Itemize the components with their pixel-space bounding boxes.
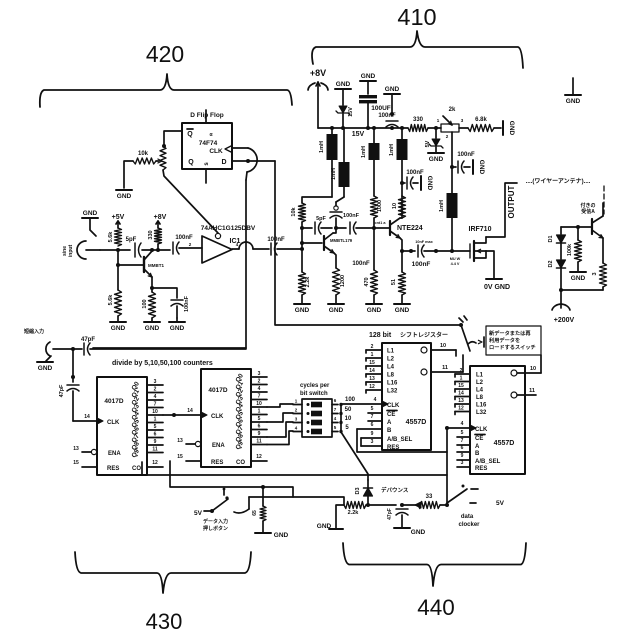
svg-text:11: 11 [442, 365, 448, 371]
svg-text:5V: 5V [425, 140, 431, 147]
label data clocker [458, 514, 480, 528]
pin RES U6 [457, 460, 487, 472]
wire Q8 counter2 to dip row3 [267, 422, 293, 437]
wire arrow on data line [402, 502, 421, 508]
svg-text:A/B_SEL: A/B_SEL [475, 459, 501, 465]
svg-text:5pF: 5pF [126, 237, 137, 243]
+8V supply at Q1 [154, 214, 167, 228]
top pin of flip flop [205, 110, 207, 123]
node driver to output stage [372, 221, 386, 230]
brace for section 420 [40, 74, 292, 107]
svg-text:GND: GND [566, 98, 581, 105]
push button data input [194, 488, 249, 517]
svg-text:受信A: 受信A [581, 208, 595, 215]
svg-text:GND: GND [317, 523, 332, 530]
brace for section 410 [312, 31, 523, 68]
resistor 470 below driver node [364, 228, 378, 295]
wire Q4 counter2 to dip row1 [267, 404, 293, 407]
svg-text:GND: GND [411, 529, 426, 536]
label OUTPUT [507, 185, 516, 218]
pin ABSEL U5 [361, 431, 413, 443]
pin CE U6 [457, 430, 485, 442]
counter U4 4017D box [201, 369, 251, 467]
svg-text:5: 5 [334, 425, 337, 430]
svg-text:7: 7 [371, 414, 374, 420]
svg-text:L32: L32 [387, 389, 398, 395]
capacitor 5pF input coupling [126, 237, 141, 257]
svg-text:GND: GND [385, 86, 400, 93]
svg-text:CLK: CLK [209, 148, 223, 155]
supply rail 15V [318, 126, 408, 138]
resistor 2.2k data line [344, 502, 366, 517]
capacitor 5pF feedback [302, 216, 332, 234]
capacitor 47pF data line [387, 508, 408, 527]
pin RES U5 [361, 439, 399, 451]
transistor Q2 MMBTL179 [324, 233, 353, 253]
pin CLK U6 [445, 421, 488, 433]
potentiometer 2k [437, 107, 464, 139]
receiver label japanese [580, 202, 595, 215]
load switch japanese text [488, 329, 536, 351]
svg-text:付きの: 付きの [580, 202, 595, 209]
pins Q0-Q9 counter2 stubs [251, 371, 267, 445]
svg-text:4: 4 [374, 397, 377, 403]
svg-text:15: 15 [177, 454, 183, 460]
svg-text:4: 4 [295, 426, 298, 431]
svg-text:2: 2 [189, 242, 192, 247]
ground at input connector [82, 210, 98, 236]
svg-text:5V: 5V [496, 500, 505, 507]
capacitor 100nF collector feed [330, 202, 360, 228]
wire load box to U6 pin10 [540, 355, 542, 373]
svg-text:RES: RES [211, 460, 223, 466]
svg-text:L2: L2 [476, 380, 484, 386]
label push button japanese [203, 518, 228, 532]
svg-text:9: 9 [371, 431, 374, 437]
diode D2 [548, 243, 566, 290]
svg-text:1mH: 1mH [319, 141, 325, 153]
svg-text:470: 470 [364, 277, 370, 286]
svg-text:4: 4 [154, 394, 157, 400]
pin 5 of flip flop [204, 162, 210, 166]
svg-text:押しボタン: 押しボタン [203, 525, 228, 532]
svg-text:10: 10 [345, 416, 352, 422]
wire driver node to PA base [374, 227, 390, 229]
svg-text:A: A [475, 444, 480, 450]
svg-text:330: 330 [148, 230, 154, 239]
ground 0V at source [484, 279, 510, 291]
svg-text:1: 1 [437, 118, 440, 123]
svg-text:input: input [68, 245, 74, 258]
wire CLK pin loop [232, 147, 248, 149]
svg-text:GND: GND [145, 325, 160, 332]
svg-text:4017D: 4017D [208, 387, 227, 394]
svg-text:9: 9 [258, 431, 261, 437]
svg-text:GND: GND [38, 365, 53, 372]
svg-text:74F74: 74F74 [199, 140, 218, 147]
svg-text:2k: 2k [449, 107, 456, 113]
ground for trimpot [116, 161, 133, 200]
svg-text:D Flip Flop: D Flip Flop [190, 112, 224, 119]
svg-text:11: 11 [529, 388, 535, 394]
svg-text:RES: RES [387, 445, 399, 451]
resistor 51 emitter [391, 251, 406, 295]
svg-text:GND: GND [571, 275, 586, 282]
svg-text:2: 2 [295, 408, 298, 413]
svg-text:GND: GND [429, 156, 444, 163]
svg-text:1mH: 1mH [361, 146, 367, 158]
svg-text:ENA: ENA [108, 451, 121, 457]
zener diode 15V [336, 106, 354, 128]
svg-text:CLK: CLK [107, 420, 120, 426]
ground for 47pF [394, 528, 426, 536]
svg-text:3: 3 [371, 439, 374, 445]
svg-text:5: 5 [345, 425, 349, 431]
svg-text:4: 4 [461, 421, 464, 427]
svg-text:7: 7 [258, 394, 261, 400]
ground counterpoise top right [565, 78, 581, 105]
label divide by counters [112, 360, 213, 367]
pins Q0-Q9 counter2 labels [234, 372, 245, 451]
pins L1-L32 U5 stubs [366, 344, 382, 393]
resistor 330 rail [408, 117, 428, 132]
mosfet Q4 IRF710 [469, 226, 492, 261]
svg-text:10: 10 [256, 401, 262, 407]
wire bus lower A [142, 462, 447, 475]
dip switch rows [293, 399, 343, 435]
pin CE U5 [368, 406, 397, 418]
svg-text:13: 13 [369, 376, 375, 382]
pin A U5 [368, 414, 392, 426]
wire 330 to pot [428, 126, 441, 130]
svg-text:100k: 100k [567, 243, 573, 256]
capacitor 100nF rail bypass [378, 112, 398, 128]
svg-text:1200: 1200 [340, 275, 346, 287]
svg-text:15: 15 [73, 460, 79, 466]
svg-text:7: 7 [461, 438, 464, 444]
svg-text:330: 330 [413, 117, 424, 123]
wire source to ground [486, 251, 494, 278]
section label 430 [146, 609, 183, 634]
wire receiver collector to antenna [602, 203, 604, 216]
svg-text:短縮入力: 短縮入力 [24, 328, 44, 335]
svg-text:3: 3 [592, 272, 598, 275]
wire output cap to bias node [277, 247, 304, 251]
capacitor 100uF bulk [359, 95, 391, 128]
pins Q0-Q9 counter1 stubs [147, 379, 163, 453]
svg-text:65: 65 [252, 510, 258, 516]
svg-text:RES: RES [475, 466, 487, 472]
svg-text:12: 12 [369, 384, 375, 390]
svg-text:7: 7 [334, 407, 337, 412]
wire emitter to +200V node [559, 288, 603, 292]
pins L1-L32 U5 labels [387, 349, 398, 395]
svg-text:4557D: 4557D [494, 440, 515, 447]
inductor 1mH feed A [319, 128, 338, 160]
svg-text:D1: D1 [548, 235, 554, 242]
svg-text:440: 440 [417, 595, 455, 620]
svg-text:A: A [387, 420, 392, 426]
svg-text:14: 14 [369, 368, 375, 374]
svg-text:10k: 10k [138, 151, 149, 157]
wire pot to 6.8k [459, 127, 468, 129]
svg-text:divide by 5,10,50,100 counters: divide by 5,10,50,100 counters [112, 360, 213, 367]
svg-text:9: 9 [154, 439, 157, 445]
svg-text:MMBTL179: MMBTL179 [330, 238, 353, 243]
svg-text:3: 3 [461, 118, 464, 123]
pin Qbar U6 [511, 388, 536, 398]
pin Q of flip flop [188, 159, 194, 166]
capacitor 47pF input [71, 337, 246, 355]
pin CLK counter1 [97, 418, 120, 426]
pins Q0-Q9 counter1 labels [130, 380, 141, 459]
svg-text:IRF710: IRF710 [469, 226, 492, 233]
section label 410 [397, 4, 436, 30]
svg-text:GND: GND [426, 176, 433, 191]
svg-text:4557D: 4557D [406, 419, 427, 426]
transistor Q3 NTE224 [390, 218, 423, 238]
wire Q1 emitter to degeneration [150, 277, 154, 290]
svg-text:1: 1 [460, 376, 463, 382]
pin RES counter2 [177, 454, 223, 466]
inductor 1mH feed B [331, 128, 350, 202]
svg-text:CLK: CLK [387, 403, 400, 409]
svg-text:14: 14 [458, 391, 464, 397]
wire Qbar to trimpot [162, 131, 182, 148]
wire to counter1 CLK [73, 414, 97, 421]
svg-text:2: 2 [371, 344, 374, 350]
svg-text:420: 420 [146, 41, 184, 67]
pin CO counter2 [236, 454, 267, 466]
+200V supply [552, 290, 575, 324]
wire D net down and across to load switch [275, 161, 460, 325]
wire dip to debounce diode [341, 432, 368, 480]
svg-text:1: 1 [258, 409, 261, 415]
wire U5 absel loop [360, 438, 362, 446]
counter U3 4017D box [97, 377, 147, 475]
node CLK-D junction [246, 159, 250, 163]
wire bus lower B [170, 461, 293, 497]
svg-text:6: 6 [154, 432, 157, 438]
wire NTE224 collector [400, 196, 402, 218]
pin CLK U5 [341, 397, 400, 409]
wire hop over divider feed [239, 242, 253, 249]
sine input connector J1 [62, 241, 100, 259]
svg-text:14: 14 [187, 408, 193, 414]
svg-text:100nF: 100nF [457, 152, 475, 158]
svg-text:3: 3 [154, 379, 157, 385]
resistor 2.2k pull-down [299, 226, 312, 295]
wire cap to IC1 input [179, 242, 202, 248]
wire IC1 output [232, 242, 239, 249]
svg-text:6: 6 [461, 445, 464, 451]
inductor 1mH drain feed [439, 193, 458, 218]
zener diode 5V bias [425, 128, 443, 152]
svg-text:s: s [204, 162, 210, 166]
wire IC1 output to cap [253, 248, 269, 250]
inductor 1mH feed D [389, 128, 408, 160]
svg-text:GND: GND [83, 210, 98, 217]
svg-text:Q: Q [187, 131, 193, 138]
pin CLK counter2 [201, 412, 224, 420]
svg-text:data: data [461, 514, 474, 520]
capacitor 100nF collector bypass [400, 160, 424, 196]
ground above 100uF [360, 73, 376, 94]
svg-text:GND: GND [329, 307, 344, 314]
svg-text:100nF: 100nF [352, 261, 370, 267]
pin B U6 [457, 445, 480, 457]
wire gate node [436, 250, 470, 252]
svg-text:L1: L1 [387, 349, 395, 355]
dip switch S1 box [302, 399, 332, 437]
svg-text:14: 14 [84, 414, 90, 420]
svg-text:L1: L1 [476, 373, 484, 379]
wire bias to driver base [302, 242, 322, 244]
svg-text:5: 5 [461, 430, 464, 436]
pin Qbar U5 [421, 355, 463, 375]
wire drain feed to source node [450, 218, 461, 266]
label 4557D U6 [494, 440, 515, 447]
svg-text:GND: GND [478, 160, 485, 175]
wire cap to collector junction [142, 248, 170, 252]
wire driver emitter to resistor [334, 253, 336, 268]
ground for wiper bypass [473, 160, 485, 175]
svg-text:10k: 10k [291, 206, 297, 216]
svg-text:5V: 5V [194, 510, 203, 517]
svg-text:3: 3 [295, 417, 298, 422]
svg-text:50: 50 [345, 407, 352, 413]
label 128 bit shift register [369, 331, 448, 339]
svg-text:CLK: CLK [211, 414, 224, 420]
svg-text:430: 430 [146, 609, 183, 634]
svg-text:GND: GND [361, 73, 376, 80]
svg-text:3: 3 [461, 460, 464, 466]
svg-text:MU W: MU W [450, 257, 461, 261]
resistor 5.6k upper bias [108, 228, 122, 246]
svg-text:100: 100 [345, 397, 356, 403]
pin ENA counter1 [73, 446, 121, 457]
svg-text:L2: L2 [387, 357, 395, 363]
wire input to base node [100, 248, 130, 252]
label 4017D second [208, 387, 227, 394]
svg-text:100nF: 100nF [267, 237, 285, 243]
svg-text:10: 10 [392, 203, 398, 209]
svg-text:1mH: 1mH [439, 200, 445, 212]
svg-text:5.6k: 5.6k [108, 294, 114, 306]
wire dip rows join [340, 404, 342, 406]
pin D of flip flop [221, 159, 226, 166]
svg-text:RES: RES [107, 466, 119, 472]
svg-text:L32: L32 [476, 410, 487, 416]
svg-text:GND: GND [117, 193, 132, 200]
brace for section 430 [75, 552, 251, 593]
wire 10k to feed inductor [302, 197, 332, 203]
resistor 33 data line [418, 494, 440, 509]
transistor Q1 MMBT1 [144, 251, 164, 277]
svg-text:51: 51 [391, 279, 397, 285]
inductor 1mH feed C [361, 128, 380, 160]
resistor 100k [567, 227, 582, 262]
svg-text:L8: L8 [387, 373, 395, 379]
svg-text:12: 12 [458, 406, 464, 412]
resistor 1200 driver emitter [333, 268, 347, 295]
svg-text:5: 5 [258, 416, 261, 422]
capacitor 100nF emitter bypass [152, 288, 190, 318]
svg-text:α: α [209, 132, 213, 138]
wire receiver base node [561, 225, 592, 229]
wire inductor A to 10k feed [331, 160, 333, 197]
svg-text:B: B [475, 451, 480, 457]
svg-text:10nF max: 10nF max [415, 240, 433, 244]
svg-text:2: 2 [154, 387, 157, 393]
label debounce japanese [381, 486, 409, 494]
pin CLK of flip flop [209, 146, 231, 155]
svg-text:6: 6 [258, 424, 261, 430]
svg-text:5.6k: 5.6k [108, 231, 114, 243]
buffer IC1 triangle [202, 233, 241, 263]
svg-text:D: D [221, 159, 226, 166]
svg-text:6: 6 [334, 398, 337, 403]
svg-text:100nF: 100nF [378, 113, 396, 119]
svg-text:12: 12 [256, 454, 262, 460]
wire data line left end [336, 505, 344, 528]
svg-text:13: 13 [458, 398, 464, 404]
svg-text:10: 10 [440, 343, 446, 349]
svg-text:A/B_SEL: A/B_SEL [387, 437, 413, 443]
svg-text:D2: D2 [548, 260, 554, 267]
svg-text:4.4 V: 4.4 V [451, 262, 460, 266]
svg-text:OUTPUT: OUTPUT [507, 185, 516, 218]
label 74AHC1G125DBV [201, 225, 256, 232]
svg-text:GND: GND [336, 81, 351, 88]
svg-text:100: 100 [142, 299, 148, 308]
pin CO counter1 [132, 460, 163, 472]
diode D3 debounce [355, 480, 373, 507]
svg-text:利用データを: 利用データを [488, 336, 520, 344]
svg-text:cycles per: cycles per [300, 383, 330, 389]
D flip-flop U2 74F74 box [182, 123, 232, 169]
svg-text:1mH: 1mH [389, 144, 395, 156]
svg-text:CO: CO [236, 460, 245, 466]
svg-text:2.2k: 2.2k [348, 510, 360, 516]
wire U5 B loop [357, 429, 447, 452]
svg-text:2: 2 [446, 134, 449, 139]
label 4557D U5 [406, 419, 427, 426]
svg-text:CE: CE [475, 436, 483, 442]
svg-text:GND: GND [274, 532, 289, 539]
svg-text:L16: L16 [387, 381, 398, 387]
capacitor 100nF into IC1 [173, 235, 193, 254]
ground for 470 [366, 295, 382, 314]
wire base divider to Q1 base [118, 264, 144, 266]
pin ABSEL U6 [457, 453, 501, 465]
svg-text:47pF: 47pF [81, 337, 95, 343]
ground for lower 5.6k [110, 316, 126, 332]
svg-text:7: 7 [154, 402, 157, 408]
svg-text:新データまたは再: 新データまたは再 [489, 329, 531, 337]
svg-text:15: 15 [458, 383, 464, 389]
svg-text:12: 12 [152, 460, 158, 466]
data clocker switch S3 [440, 485, 478, 508]
svg-text:2: 2 [460, 368, 463, 374]
svg-text:2.2k: 2.2k [305, 276, 311, 288]
svg-text:GND: GND [508, 121, 515, 136]
svg-text:15V: 15V [352, 131, 365, 138]
svg-text:+200V: +200V [554, 317, 575, 324]
svg-text:NTE224: NTE224 [397, 225, 423, 232]
antenna dashed line [603, 186, 605, 214]
ground for button resistor [255, 521, 289, 539]
